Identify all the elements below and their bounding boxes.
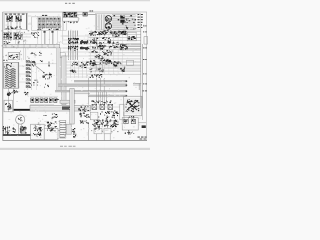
bus band tick marks: [5, 44, 7, 47]
relay box K9: [127, 32, 136, 41]
vertical band x70: [70, 89, 74, 125]
label row above xfmr: [98, 100, 99, 103]
right margin label e: [143, 83, 144, 86]
cluster right mid taps: [120, 68, 121, 69]
label left border small: [3, 59, 5, 62]
scan texture noise: [6, 24, 8, 25]
block A2 outline: [32, 17, 61, 31]
cluster bus taps c: [70, 71, 71, 72]
page bottom edge shadow: [0, 148, 150, 150]
junction specks right rows: [130, 15, 133, 18]
component marks lattice j: [114, 33, 117, 36]
cluster x52 y114: [53, 117, 54, 118]
component marks lattice d: [107, 41, 110, 42]
dark segment in band: [62, 106, 70, 109]
label top right margin: [143, 90, 145, 93]
figure caption line2: [140, 138, 143, 141]
wire bottom left heavy: [3, 134, 31, 136]
component marks lattice h: [106, 50, 107, 51]
label T3 top: [6, 65, 7, 66]
op-amp U4 circle: [105, 23, 111, 29]
bus band AC mains: [3, 44, 60, 47]
cluster small x24: [26, 93, 29, 94]
gray corner right: [133, 83, 141, 90]
bus band lower main: [30, 105, 91, 111]
terminal block TB2 upper: [120, 15, 124, 18]
rectifier CR2 group: [14, 33, 23, 40]
wire verticals through bars: [89, 78, 105, 105]
cluster small 45_85: [43, 87, 46, 88]
wire PS1 inner right edge: [25, 13, 27, 29]
wire verticals mid low: [99, 92, 107, 105]
junction dashes amp rows: [114, 15, 116, 16]
cluster small 33_82: [36, 84, 39, 87]
wire stub x44: [45, 31, 53, 45]
cluster after band: [79, 110, 80, 111]
net labels right margin top: [138, 14, 143, 15]
sheet title text: [65, 3, 67, 4]
contact row S1-S6: [31, 98, 34, 102]
wire ladder links: [19, 66, 26, 82]
component marks lattice m: [114, 60, 116, 63]
wire y94 stub: [75, 93, 91, 95]
right margin label b: [143, 31, 144, 34]
label row below PS1: [10, 27, 13, 30]
cluster below band: [85, 116, 87, 117]
transformer T2 symbol: [15, 16, 21, 22]
regulator block outline: [124, 96, 142, 116]
cluster bottom A: [40, 127, 43, 128]
wire U2 to R5: [77, 13, 96, 15]
bottom center tiny text: [60, 145, 63, 148]
component marks lattice n: [91, 70, 92, 73]
box mid small: [96, 64, 102, 70]
transformer T3 windings: [5, 68, 16, 70]
ground symbol G1: [127, 130, 130, 134]
component cluster right of harness: [80, 43, 82, 44]
bus bar junction dots: [126, 81, 128, 82]
wire PS1 right: [28, 16, 32, 24]
bus junction specks: [33, 52, 36, 55]
arrow right of contacts: [55, 99, 58, 101]
big block right edge: [141, 25, 143, 108]
amp block outline: [96, 13, 141, 30]
cluster below regulator: [132, 116, 135, 117]
wire pair right b: [120, 49, 142, 50]
component marks lattice g: [100, 48, 101, 49]
wire lattice rows right half: [89, 31, 141, 33]
component marks lattice a: [89, 33, 90, 34]
box meter M1: [4, 100, 12, 112]
cluster bm a: [97, 120, 98, 121]
label specks row2 left: [5, 40, 8, 43]
block bottom A outline: [31, 124, 45, 139]
wires off center bus: [66, 61, 90, 63]
comb hatch area: [111, 32, 113, 37]
wire T3 right edge: [18, 62, 20, 89]
wire u1 links down: [61, 21, 67, 44]
sync motor B1 circle: [16, 115, 25, 124]
cluster top mid a: [93, 63, 94, 64]
pot VR1 inner a: [124, 119, 128, 123]
IC U2 body: [71, 12, 77, 17]
resistor bar R22: [80, 47, 88, 49]
terminal block TB2 lower: [120, 20, 124, 23]
label PS1: [5, 13, 7, 16]
wire CR group drops: [6, 40, 19, 45]
schematic border right: [146, 12, 148, 141]
figure caption line1: [138, 136, 140, 139]
wire contact feed: [30, 95, 58, 97]
resistor ladder column: [26, 61, 29, 63]
cluster at wire pair: [125, 48, 126, 51]
wire stub left col: [31, 60, 33, 90]
right margin label f: [143, 47, 145, 50]
harness center verticals: [69, 31, 78, 61]
dark bus segment: [14, 109, 35, 111]
wire mid links: [90, 63, 120, 72]
right margin label a: [143, 25, 145, 28]
wire bm drops: [97, 134, 111, 141]
label row TB1: [91, 75, 92, 78]
band bottom center: [66, 124, 71, 134]
schematic border bottom: [3, 140, 147, 142]
cluster Q1 area: [34, 62, 35, 65]
wash dense zone g: [124, 98, 141, 114]
cluster bus taps b: [85, 67, 87, 68]
IC U1 body: [63, 12, 70, 17]
cluster top mid b: [106, 60, 107, 63]
op-amp U3 circle: [105, 16, 111, 22]
label A2: [42, 15, 44, 16]
component marks lattice p: [119, 45, 122, 46]
box left of regulator: [120, 104, 124, 120]
right box corner: [144, 37, 148, 45]
diode CR9: [142, 125, 146, 128]
wire x36 drop: [36, 66, 38, 90]
wire drops A2 to band: [38, 30, 58, 44]
wire y64 link: [30, 63, 57, 65]
wire top feed line: [89, 13, 97, 15]
cluster small x13: [15, 91, 16, 94]
label plus x40: [42, 60, 43, 63]
label specks A2 bottom: [53, 29, 56, 30]
filter box FL1: [8, 52, 20, 59]
pot VR1 inner b: [131, 119, 135, 123]
wire CR2 right links: [22, 34, 31, 37]
bus band upper branch: [60, 100, 75, 103]
wash dense zone h: [3, 62, 19, 89]
wire reg block right drop: [142, 96, 144, 120]
wire left stubs: [61, 36, 69, 56]
arrow down x49: [48, 62, 50, 67]
junction cluster center a: [74, 39, 75, 40]
wire VR1 right: [138, 122, 146, 124]
wire diagonal: [34, 65, 45, 74]
cluster transistors low: [112, 117, 113, 118]
cluster bm b: [100, 123, 103, 124]
component marks lattice c: [92, 41, 93, 44]
label small x44 y115: [44, 114, 45, 117]
wire ladder spine: [27, 60, 29, 90]
right margin label c: [143, 58, 145, 61]
page top edge shadow: [0, 0, 150, 1]
cluster xblock extra: [132, 108, 133, 109]
component marks lattice k: [92, 62, 93, 65]
wire motor leads: [19, 124, 22, 134]
transformer T1 symbol: [6, 16, 12, 22]
wire cross verticals center: [71, 61, 87, 79]
component marks lattice l: [111, 62, 113, 63]
label under VR1: [127, 131, 128, 134]
transformer T3 box: [4, 62, 18, 88]
wire left col verticals: [9, 89, 14, 113]
wire pair right a: [120, 45, 142, 46]
bus bar row84 main: [58, 84, 127, 87]
texture dense zone4: [19, 53, 20, 54]
schematic border top: [3, 11, 147, 13]
arrow cluster bottom: [73, 132, 76, 133]
wires right mid rows: [120, 62, 141, 70]
cluster bottom B: [49, 125, 51, 126]
vertical bus center: [62, 56, 66, 104]
wire lamp links: [90, 106, 120, 108]
box right mid: [127, 60, 134, 65]
box low mid: [90, 112, 98, 120]
right margin label d: [143, 73, 144, 76]
ladder side dots: [30, 62, 31, 63]
box U1 surround: [63, 17, 79, 21]
resistor bar R21: [80, 41, 88, 43]
box small x60: [60, 52, 65, 58]
component marks lattice f: [110, 45, 112, 48]
terminal strip TS1: [60, 120, 66, 138]
wire CR drop lines: [24, 40, 26, 61]
cap C11 cluster: [14, 129, 17, 132]
rectifier CR1 group: [3, 33, 12, 40]
bridge rectifier CR5 cluster: [129, 98, 130, 101]
component marks lattice e: [102, 45, 103, 46]
bus bar row95: [88, 95, 127, 97]
schematic border left: [2, 12, 4, 141]
resistor R5 box: [83, 12, 87, 16]
wash amp rows: [95, 13, 136, 30]
wire L bottom: [88, 124, 90, 140]
cluster top mid c: [117, 63, 118, 66]
box bm row: [94, 128, 102, 133]
label U1 bottom: [64, 21, 65, 24]
component marks lattice o: [124, 33, 126, 36]
wire T1 drops: [8, 21, 20, 26]
component marks lattice i: [100, 57, 103, 60]
cap C12 cluster: [25, 132, 26, 133]
wire bus verticals top right: [97, 15, 105, 31]
label near x90: [90, 10, 91, 13]
box VR1: [122, 118, 138, 130]
cluster right upper: [122, 31, 125, 34]
page background: [0, 0, 150, 150]
box bottom B: [44, 128, 58, 139]
cluster Q2 Q3: [49, 74, 50, 75]
arrow terminals A1: [7, 27, 21, 29]
wire drops PS1 to row2: [8, 30, 20, 33]
bus bar row80: [74, 80, 127, 82]
wire U1 drop: [64, 21, 67, 30]
block PS1 outline: [4, 13, 28, 30]
cap C10 cluster: [6, 131, 9, 134]
lamp row DS1-DS3: [92, 104, 97, 109]
harness cross wires: [63, 35, 90, 37]
cluster bm c: [109, 120, 112, 123]
wire contact row links: [30, 105, 54, 106]
wire links 88_40: [88, 31, 92, 45]
wire lattice cols right half: [90, 31, 92, 74]
cluster small top right of TS1: [83, 121, 86, 122]
bus band vertical right leg: [57, 48, 60, 91]
plus marks col: [30, 32, 33, 35]
cluster bus taps a: [74, 63, 75, 66]
cluster fuse F1: [9, 92, 12, 95]
relay contact row K7-K12: [38, 24, 41, 28]
component marks lattice b: [105, 32, 108, 35]
wire harness right rows: [112, 14, 136, 16]
texture dense zone2: [39, 130, 42, 133]
junction dots harness: [68, 38, 69, 39]
cluster bottom right extra: [106, 117, 107, 120]
relay contact row K1-K6: [38, 18, 41, 22]
wire row A2 verticals: [38, 16, 58, 28]
bus bar row90: [55, 90, 127, 92]
junction cluster center b: [75, 45, 76, 48]
texture dense zone3: [95, 126, 96, 129]
